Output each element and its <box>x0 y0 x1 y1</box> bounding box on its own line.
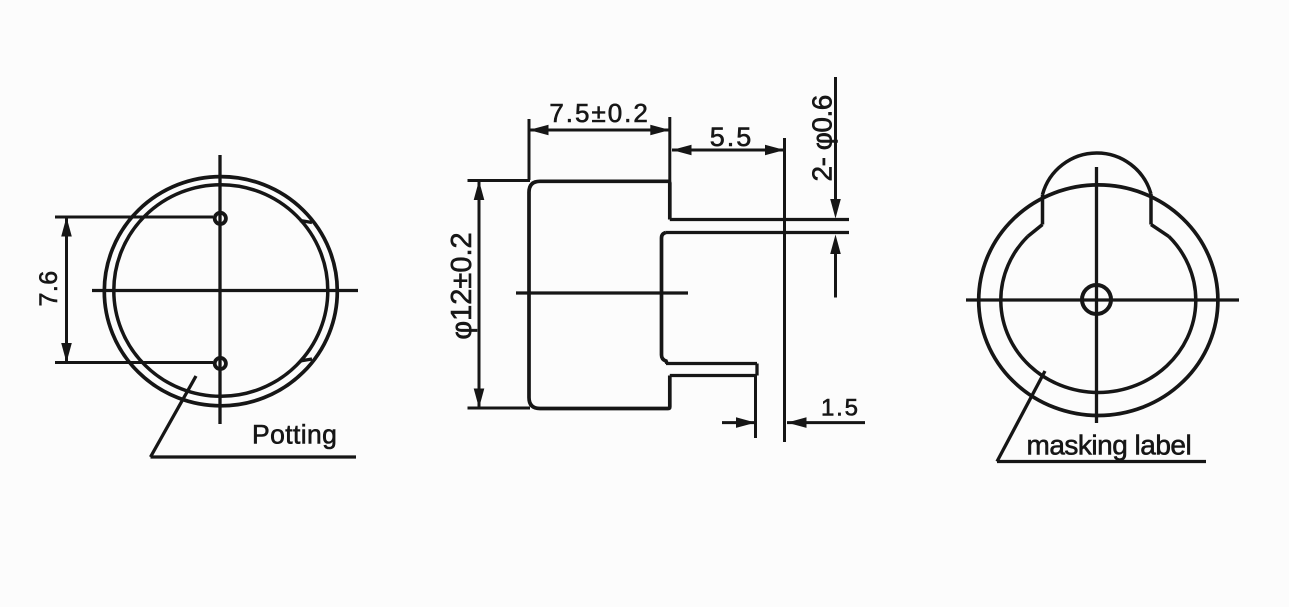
vertical center line <box>1095 167 1098 423</box>
arrowhead up (7.6) <box>61 217 72 237</box>
leader underline Potting <box>151 455 357 458</box>
pin 1 (upper) bottom edge <box>666 231 849 234</box>
svg-text:5.5: 5.5 <box>710 122 754 152</box>
svg-text:7.6: 7.6 <box>35 270 63 306</box>
extension line bottom (7.6 dim) <box>55 361 213 364</box>
pin 1 (upper) top edge <box>670 218 849 221</box>
seam tick upper right <box>300 221 312 223</box>
horizontal center line <box>92 289 358 292</box>
phi12 dimension line <box>478 181 481 409</box>
arrowhead right (5.5) <box>765 145 785 156</box>
5.5 extension line right <box>783 138 786 442</box>
tab left vertical <box>1041 195 1045 225</box>
dimension line 5.5 <box>672 149 785 152</box>
svg-text:7.5±0.2: 7.5±0.2 <box>549 98 650 128</box>
svg-text:2- φ0.6: 2- φ0.6 <box>807 95 838 181</box>
seam tick lower right <box>300 359 312 361</box>
tab bump arc <box>1043 153 1152 194</box>
2-phi0.6 dimension line upper with down arrow <box>834 77 837 203</box>
arrowhead left (5.5) <box>672 145 692 156</box>
outer circle <box>979 185 1218 416</box>
arrowhead left (7.5) <box>529 125 549 136</box>
leader underline masking label <box>997 460 1206 463</box>
vertical center line <box>218 155 221 424</box>
pin 2 (lower) bottom edge <box>670 374 757 377</box>
svg-text:1.5: 1.5 <box>821 395 860 422</box>
dimension line 7.6 <box>65 217 68 363</box>
leader line to Potting <box>151 376 197 457</box>
pin 2 end cap <box>755 364 758 376</box>
horizontal center line <box>966 298 1239 301</box>
phi12 extension line top <box>468 179 531 182</box>
7.5 extension line left <box>528 119 531 180</box>
middle view center line <box>516 291 688 294</box>
inner circle with gap at top <box>1001 236 1196 392</box>
tab right diagonal <box>1151 225 1169 237</box>
sound hole center circle <box>1082 285 1111 314</box>
pin 2 (lower) top edge <box>666 362 757 365</box>
1.5 dimension left arrow <box>722 421 756 424</box>
svg-text:masking label: masking label <box>1027 430 1192 461</box>
arrowhead up (phi12) <box>474 181 485 201</box>
pin hole top <box>215 213 226 224</box>
tab right vertical <box>1149 194 1153 225</box>
case edge between pins <box>662 233 668 364</box>
tab left diagonal <box>1028 225 1043 237</box>
arrowhead right (7.5) <box>650 125 670 136</box>
leader line to masking label <box>997 371 1045 462</box>
pin hole bottom <box>215 358 226 369</box>
extension line top (7.6 dim) <box>55 216 213 219</box>
outer case circle <box>104 177 337 406</box>
dimension line 7.5 <box>529 129 670 132</box>
inner case circle <box>114 185 328 397</box>
svg-text:φ12±0.2: φ12±0.2 <box>446 232 478 339</box>
arrowhead down (7.6) <box>61 343 72 363</box>
1.5 extension line left <box>754 377 757 438</box>
1.5 dimension right arrow <box>787 421 865 424</box>
2-phi0.6 lower up arrow <box>834 250 837 298</box>
phi12 extension line bottom <box>468 407 531 410</box>
arrowhead down (phi12) <box>474 389 485 409</box>
svg-text:Potting: Potting <box>252 420 337 450</box>
7.5 extension line right <box>668 117 671 181</box>
body outline <box>529 181 670 408</box>
